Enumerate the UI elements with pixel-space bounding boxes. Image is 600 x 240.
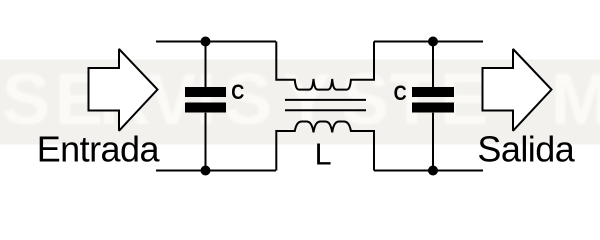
- capacitor C2 plate bottom: [412, 103, 454, 113]
- inductor core line 1: [285, 99, 366, 101]
- inductor core line 2: [285, 109, 366, 111]
- output arrow: [483, 49, 552, 131]
- svg-text:Salida: Salida: [477, 129, 575, 170]
- wire right capacitor top lead: [432, 42, 434, 88]
- junction node bottom-right: [428, 166, 438, 176]
- wire bottom-right rail: [374, 170, 483, 172]
- inductor L bottom winding: [276, 122, 374, 171]
- wire top-right rail: [374, 41, 483, 43]
- junction node top-right: [428, 37, 438, 47]
- wire top-left rail: [156, 41, 276, 43]
- svg-text:L: L: [315, 138, 332, 172]
- wire left capacitor bottom lead: [205, 113, 207, 171]
- wire left capacitor top lead: [205, 42, 207, 88]
- input arrow: [89, 49, 158, 131]
- capacitor C1 plate top: [185, 87, 226, 97]
- watermark band: [0, 60, 600, 145]
- junction node bottom-left: [201, 166, 211, 176]
- wire right capacitor bottom lead: [432, 113, 434, 171]
- svg-text:C: C: [231, 81, 244, 105]
- capacitor C1 plate bottom: [185, 103, 226, 113]
- capacitor C2 plate top: [412, 87, 454, 97]
- inductor L top winding: [276, 42, 374, 90]
- junction node top-left: [201, 37, 211, 47]
- svg-text:Entrada: Entrada: [37, 129, 161, 170]
- svg-text:C: C: [394, 82, 407, 106]
- wire bottom-left rail: [156, 170, 276, 172]
